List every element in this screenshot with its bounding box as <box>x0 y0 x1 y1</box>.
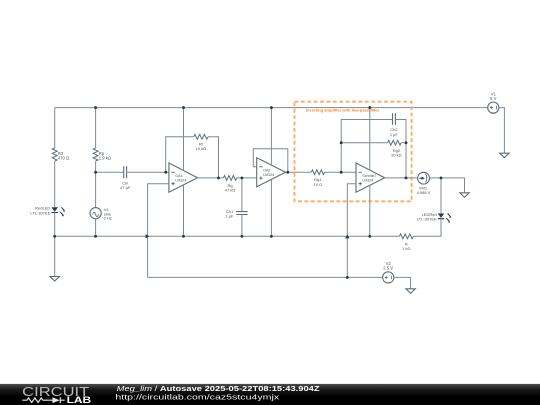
wire V1 to ground <box>499 108 505 154</box>
svg-text:1.9 kΩ: 1.9 kΩ <box>99 156 111 161</box>
wire V2 to ground <box>394 277 411 288</box>
wire Rp to node and V4 <box>95 161 97 208</box>
svg-text:http://circuitlab.com/caz5stcu: http://circuitlab.com/caz5stcu4ymjx <box>115 394 280 401</box>
resistor Rf 10k <box>194 134 208 151</box>
ground below V1 <box>500 153 509 158</box>
LED RedLED LTL-307EE <box>30 206 65 217</box>
wire V4 to ground rail <box>95 219 97 237</box>
wire Rg1 to Schmitt7 inverting input <box>325 171 356 173</box>
op-amp OA1 LM324 <box>169 163 198 192</box>
svg-text:1 µF: 1 µF <box>225 214 234 219</box>
wire R3 to RedLED <box>54 161 56 207</box>
voltage source V1 5V <box>488 91 499 113</box>
wire rail to Rp <box>95 108 97 148</box>
svg-text:20 kΩ: 20 kΩ <box>391 153 402 158</box>
svg-text:LTL-307EE: LTL-307EE <box>30 210 50 215</box>
capacitor Ch1 1uF <box>225 209 247 219</box>
wire Ch2 to right riser <box>396 120 406 178</box>
op-amp OA2 LM324 voltage follower <box>257 158 286 187</box>
node Schmitt7 inverting input junction <box>340 171 343 174</box>
node ground rail/Schmitt7 V- junction <box>368 235 371 238</box>
svg-text:1 µF: 1 µF <box>390 132 399 137</box>
svg-text:LM324: LM324 <box>362 179 373 183</box>
wire node to Ch1 <box>241 178 243 212</box>
svg-text:470 Ω: 470 Ω <box>58 156 69 161</box>
node rail/OA1 V+ junction <box>182 106 185 109</box>
node ground rail/OA1 V- junction <box>182 235 185 238</box>
node ground rail/V4 junction <box>94 235 97 238</box>
svg-text:2.5 V: 2.5 V <box>383 266 393 271</box>
wire Schmitt7 V- pin to ground rail <box>369 185 371 236</box>
capacitor Cin 47uF <box>120 166 131 190</box>
svg-text:10 kΩ: 10 kΩ <box>196 146 207 151</box>
resistor Rg2 20k <box>388 140 402 157</box>
wire Ch1 to ground rail <box>241 215 243 237</box>
svg-text:OA2: OA2 <box>263 169 270 173</box>
node OA1 output/feedback junction <box>217 176 220 179</box>
svg-text:LAB: LAB <box>67 395 92 405</box>
node rail/Rp junction <box>94 106 97 109</box>
resistor Rg1 10 <box>311 170 324 187</box>
resistor Rp 1.9k <box>93 148 111 161</box>
node 2.5V rail junction <box>346 276 349 279</box>
wire OA1 feedback left <box>166 137 194 172</box>
wire VM1 to ground <box>429 178 464 193</box>
svg-text:1 kΩ: 1 kΩ <box>402 246 410 251</box>
wire Schmitt7 non-inverting input to 2.5V reference <box>347 184 356 278</box>
wire OA1 non-inverting input to 2.5V reference <box>148 184 169 278</box>
wire ground bottom rail <box>55 235 400 237</box>
svg-text:Meg_lim / Autosave 2025-05-22T: Meg_lim / Autosave 2025-05-22T08:15:43.9… <box>117 386 321 393</box>
node OA2 output/feedback junction <box>286 171 289 174</box>
wire node Rp/V4 to Cin <box>96 171 124 173</box>
svg-text:OA1: OA1 <box>175 174 182 178</box>
ground below V2 <box>406 289 415 294</box>
wire OA2 V+ pin to rail <box>270 108 272 165</box>
voltmeter VM1 <box>417 172 431 195</box>
voltage source V4 sine 2Hz <box>90 207 112 221</box>
node rail/OA2 V+ junction <box>270 106 273 109</box>
resistor R3 470 <box>52 148 69 161</box>
svg-text:LTL-307EE: LTL-307EE <box>417 217 437 222</box>
wire Schmitt7 V+ pin to rail <box>369 108 371 171</box>
resistor Rg 47k <box>223 176 236 193</box>
node output/LEDRed junction <box>440 176 443 179</box>
node OA1 inverting input junction <box>164 171 167 174</box>
wire OA1 feedback right <box>208 137 219 178</box>
node ground rail/LED junction <box>53 235 56 238</box>
svg-text:10 Ω: 10 Ω <box>314 182 323 187</box>
wire output node down to LEDRed <box>440 178 442 214</box>
ground right of VM1 <box>460 193 469 198</box>
svg-text:4.988 V: 4.988 V <box>417 190 431 195</box>
svg-text:47 µF: 47 µF <box>120 185 131 190</box>
node Schmitt7 output/feedback junction <box>405 176 408 179</box>
wire Schmitt7 feedback left riser <box>341 120 392 173</box>
node Schmitt7 feedback/Rg2 left junction <box>340 141 343 144</box>
node ground rail/OA2 V- junction <box>270 235 273 238</box>
wire OA1 V- pin to ground rail <box>183 185 185 236</box>
svg-text:Schmitt7: Schmitt7 <box>362 174 376 178</box>
wire OA2 V- pin to ground rail <box>270 180 272 237</box>
wire OA1 V+ pin to rail <box>183 108 185 171</box>
wire top +5V rail <box>55 107 488 109</box>
svg-text:2 Hz: 2 Hz <box>104 216 112 221</box>
node Rg2/riser right junction <box>405 141 408 144</box>
wire Schmitt7 output to VM1 <box>385 177 418 179</box>
LED LEDRed LTL-307EE <box>417 212 452 223</box>
node Rg/Ch1/OA2 junction <box>240 176 243 179</box>
CircuitLab logo <box>22 384 92 405</box>
voltage source V2 2.5V <box>383 261 394 283</box>
svg-text:5 V: 5 V <box>490 96 496 101</box>
svg-text:LM324: LM324 <box>263 173 274 177</box>
wire Rg to OA2 non-inverting input <box>237 177 257 179</box>
wire Rg2 branch left <box>341 142 387 144</box>
wire OA2 output <box>286 171 312 173</box>
wire RedLED to ground rail <box>54 213 56 277</box>
resistor R 1k <box>399 234 413 251</box>
annotation box inverting amplifier with low-pass filter <box>295 102 412 202</box>
wire crossing marker left <box>146 234 150 238</box>
node Rp/V4/Cin junction <box>94 171 97 174</box>
wire OA2 feedback loop <box>253 149 287 173</box>
capacitor Ch2 1uF <box>390 113 399 137</box>
wire Rg2 to right riser <box>401 142 406 144</box>
wire left branch top (rail to R3) <box>54 108 56 148</box>
wire LEDRed to R <box>413 219 441 236</box>
svg-text:47 kΩ: 47 kΩ <box>225 188 236 193</box>
wire Cin to OA1 inverting input <box>127 171 169 173</box>
node rail/Schmitt7 V+ junction <box>368 106 371 109</box>
svg-text:LM324: LM324 <box>175 179 186 183</box>
wire OA1 output <box>198 177 224 179</box>
node ground rail/Ch1 junction <box>240 235 243 238</box>
wire crossing marker right <box>345 234 349 238</box>
op-amp Schmitt7 LM324 <box>356 163 385 192</box>
ground bottom left <box>50 277 59 282</box>
wire 2.5V reference lower rail <box>148 276 383 278</box>
